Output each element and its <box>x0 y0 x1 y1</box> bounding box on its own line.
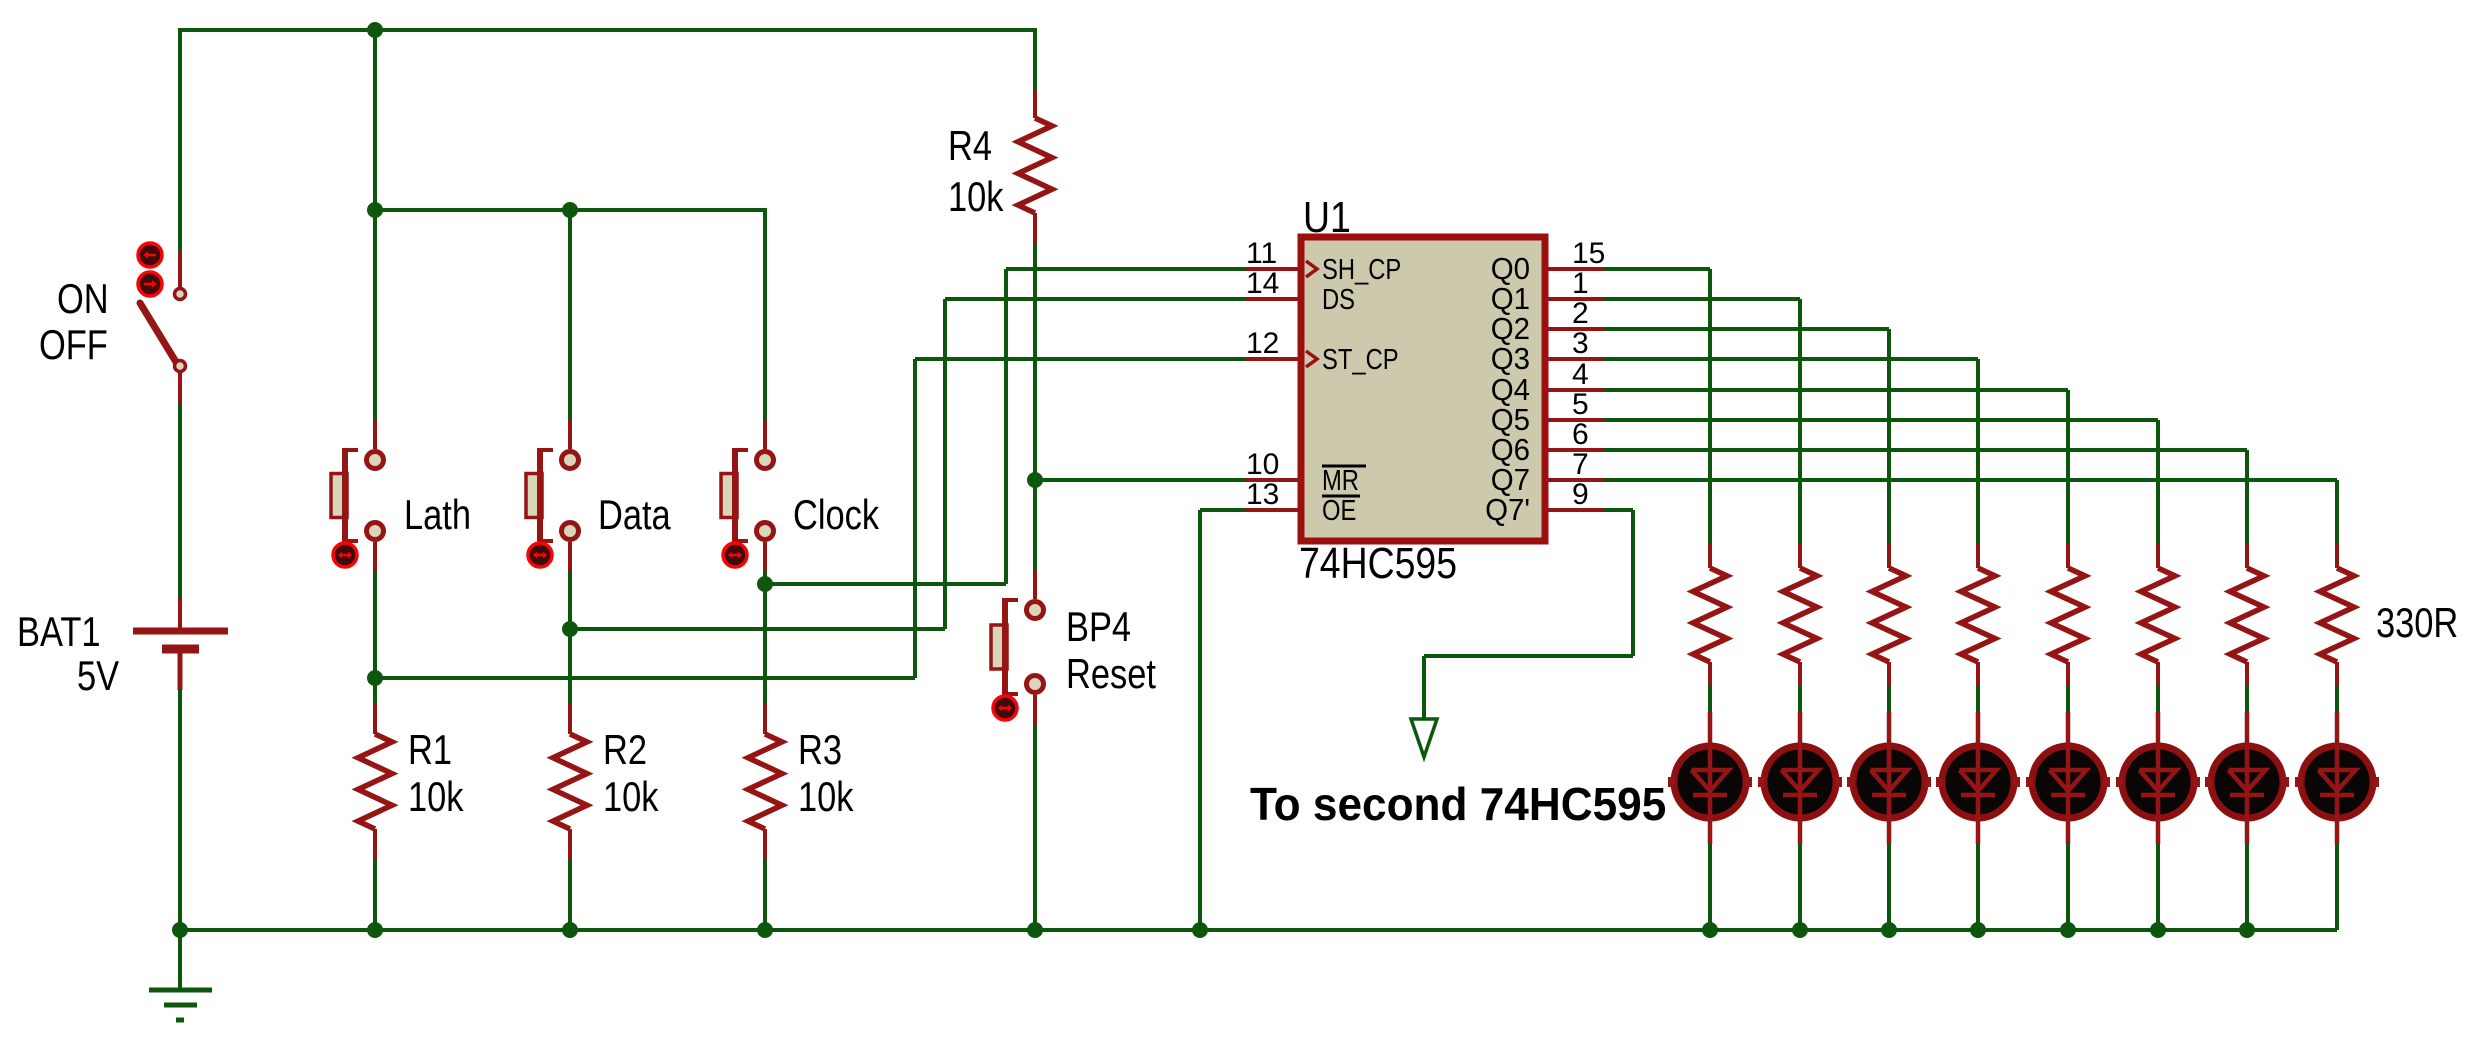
svg-text:OE: OE <box>1322 494 1356 527</box>
svg-text:R3: R3 <box>798 727 842 774</box>
wire BP4 to ground rail <box>1033 725 1037 930</box>
svg-text:Q5: Q5 <box>1491 403 1530 437</box>
label R1 value 10k <box>408 774 464 821</box>
svg-text:10k: 10k <box>408 774 464 821</box>
svg-text:R4: R4 <box>948 123 992 170</box>
pin 4 Q4 <box>1491 358 1603 407</box>
svg-text:Q3: Q3 <box>1491 342 1530 376</box>
label R1 <box>408 727 452 774</box>
wire Q6 to LED column 7 <box>1603 450 2247 544</box>
wire button rail to Data button <box>568 210 572 420</box>
LED D1 <box>1668 712 1752 844</box>
wire switch to battery <box>178 403 182 597</box>
junction button rail at Data column <box>562 202 578 218</box>
svg-text:Q4: Q4 <box>1491 373 1530 407</box>
ground <box>149 990 212 1020</box>
svg-text:11: 11 <box>1246 237 1277 270</box>
label To second 74HC595 <box>1250 778 1666 830</box>
LED D5 <box>2026 712 2110 844</box>
svg-text:5V: 5V <box>77 653 119 700</box>
svg-text:Q1: Q1 <box>1491 282 1530 316</box>
wire Lath button to node <box>373 571 377 678</box>
button Lath actuator <box>333 543 357 567</box>
push button Clock <box>721 420 774 571</box>
wire to pin ST_CP <box>915 357 1245 361</box>
switch actuator marks <box>138 243 162 296</box>
label 5V <box>77 653 119 700</box>
wire LED D8 to ground rail <box>2335 844 2339 930</box>
label 330R <box>2376 600 2458 647</box>
wire Q2 to LED column 3 <box>1603 329 1889 544</box>
junction ground rail at R2 <box>562 922 578 938</box>
resistor 330R #4 <box>1961 544 1995 686</box>
svg-text:Data: Data <box>598 492 671 539</box>
wire R3 to ground rail <box>763 860 767 930</box>
svg-text:DS: DS <box>1322 283 1355 316</box>
label Clock <box>793 492 880 539</box>
svg-text:5: 5 <box>1572 388 1589 421</box>
wire R1 to ground rail <box>373 860 377 930</box>
wire LED D7 to ground rail <box>2245 844 2249 930</box>
wire resistor to LED D8 <box>2335 686 2339 712</box>
svg-text:10k: 10k <box>798 774 854 821</box>
junction node Data <box>562 621 578 637</box>
svg-text:ON: ON <box>57 276 109 323</box>
label ON <box>57 276 109 323</box>
svg-text:3: 3 <box>1572 327 1589 360</box>
wire VCC top rail <box>180 28 1035 32</box>
label BAT1 <box>17 609 101 656</box>
wire Lath node to ST_CP riser <box>375 359 915 678</box>
push button Lath <box>331 420 384 571</box>
wire Q2 column to resistor <box>1887 544 1891 546</box>
wire Q0 column to resistor <box>1708 544 1712 546</box>
pin 9 Q7' <box>1485 478 1603 527</box>
svg-text:2: 2 <box>1572 297 1589 330</box>
junction ground rail at LED 4 <box>1970 922 1986 938</box>
svg-text:R2: R2 <box>603 727 647 774</box>
wire button rail to Clock button <box>763 208 767 420</box>
junction ground rail at LED 3 <box>1881 922 1897 938</box>
wire LED D5 to ground rail <box>2066 844 2070 930</box>
push button BP4 Reset <box>991 569 1044 725</box>
label R3 <box>798 727 842 774</box>
wire LED D3 to ground rail <box>1887 844 1891 930</box>
wire to pin SH_CP <box>1006 267 1245 271</box>
wire to pin MR <box>1035 478 1245 482</box>
svg-text:Q7: Q7 <box>1491 463 1530 497</box>
label Lath <box>404 492 471 539</box>
wire ground stem <box>178 930 182 990</box>
svg-text:10: 10 <box>1246 448 1279 481</box>
wire left column to switch <box>178 28 182 252</box>
svg-text:1: 1 <box>1572 267 1589 300</box>
svg-text:7: 7 <box>1572 448 1589 481</box>
op-amp U1 74HC595 body <box>1301 237 1545 541</box>
LED D4 <box>1936 712 2020 844</box>
svg-text:Q0: Q0 <box>1491 252 1530 286</box>
wire Data button to node <box>568 571 572 629</box>
wire button rail to Lath button <box>373 210 377 420</box>
switch ON/OFF <box>140 252 186 403</box>
resistor 330R #8 <box>2320 544 2354 686</box>
pin 7 Q7 <box>1491 448 1603 497</box>
label BP4 <box>1066 604 1131 651</box>
svg-text:4: 4 <box>1572 358 1589 391</box>
pin 3 Q3 <box>1491 327 1603 376</box>
junction ground rail at LED 7 <box>2239 922 2255 938</box>
wire Q3 column to resistor <box>1976 544 1980 546</box>
wire Q5 to LED column 6 <box>1603 420 2158 544</box>
resistor R4 <box>1018 89 1052 243</box>
wire Data node to DS riser <box>570 299 945 629</box>
wire battery to ground rail <box>178 690 182 930</box>
svg-text:12: 12 <box>1246 327 1279 360</box>
LED D7 <box>2205 712 2289 844</box>
svg-text:BP4: BP4 <box>1066 604 1131 651</box>
button BP4 actuator <box>993 696 1017 720</box>
LED D8 <box>2295 712 2379 844</box>
pin 2 Q2 <box>1491 297 1603 346</box>
svg-text:10k: 10k <box>603 774 659 821</box>
wire button supply rail <box>375 208 765 212</box>
resistor 330R #1 <box>1693 544 1727 686</box>
pin 11 SH_CP <box>1245 237 1401 286</box>
label R2 <box>603 727 647 774</box>
wire Q0 to LED column 1 <box>1603 269 1710 544</box>
junction ground rail at R3 <box>757 922 773 938</box>
pin 1 Q1 <box>1491 267 1603 316</box>
svg-text:Q2: Q2 <box>1491 312 1530 346</box>
junction ground rail at LED 5 <box>2060 922 2076 938</box>
wire Q5 column to resistor <box>2156 544 2160 546</box>
wire resistor to LED D1 <box>1708 686 1712 712</box>
svg-text:R1: R1 <box>408 727 452 774</box>
wire drop to button rail <box>373 28 377 210</box>
resistor 330R #6 <box>2141 544 2175 686</box>
wire LED D6 to ground rail <box>2156 844 2160 930</box>
button Data actuator <box>528 543 552 567</box>
pin 15 Q0 <box>1491 237 1606 286</box>
wire resistor to LED D4 <box>1976 686 1980 712</box>
resistor 330R #5 <box>2051 544 2085 686</box>
junction ground rail at OE wire <box>1192 922 1208 938</box>
wire Q6 column to resistor <box>2245 544 2249 546</box>
svg-text:6: 6 <box>1572 418 1589 451</box>
node To second 74HC595 arrow <box>1411 719 1437 757</box>
junction node MR <box>1027 472 1043 488</box>
wire Q7 column to resistor <box>2335 544 2339 546</box>
svg-text:OFF: OFF <box>39 322 108 369</box>
battery BAT1 <box>133 597 228 690</box>
label Reset <box>1066 651 1156 698</box>
wire R2 to ground rail <box>568 860 572 930</box>
svg-text:U1: U1 <box>1303 192 1351 242</box>
wire Clock node to resistor R3 <box>763 584 767 703</box>
pin 13 OE <box>1245 478 1360 527</box>
resistor R2 <box>553 703 587 860</box>
junction node Lath <box>367 670 383 686</box>
label R4 value 10k <box>948 174 1004 221</box>
svg-text:13: 13 <box>1246 478 1279 511</box>
LED D3 <box>1847 712 1931 844</box>
svg-text:To second 74HC595: To second 74HC595 <box>1250 778 1666 830</box>
wire Clock button to node <box>763 571 767 584</box>
wire resistor to LED D3 <box>1887 686 1891 712</box>
wire Q4 column to resistor <box>2066 544 2070 546</box>
wire MR node to BP4 <box>1033 480 1037 569</box>
svg-text:10k: 10k <box>948 174 1004 221</box>
pin 6 Q6 <box>1491 418 1603 467</box>
wire pin OE to ground rail <box>1200 510 1245 930</box>
wire resistor to LED D5 <box>2066 686 2070 712</box>
svg-text:Q6: Q6 <box>1491 433 1530 467</box>
wire Q7 to LED column 8 <box>1603 480 2337 544</box>
wire LED D1 to ground rail <box>1708 844 1712 930</box>
resistor R1 <box>358 703 392 860</box>
svg-text:MR: MR <box>1322 464 1359 497</box>
pin 5 Q5 <box>1491 388 1603 437</box>
wire resistor to LED D2 <box>1798 686 1802 712</box>
svg-text:Reset: Reset <box>1066 651 1156 698</box>
junction top rail / switch-buttons drop <box>367 22 383 38</box>
wire bottom ground rail <box>180 928 2337 932</box>
label 74HC595 <box>1299 538 1457 588</box>
resistor 330R #7 <box>2230 544 2264 686</box>
label R3 value 10k <box>798 774 854 821</box>
pin 12 ST_CP <box>1245 327 1399 376</box>
svg-text:ST_CP: ST_CP <box>1322 343 1399 376</box>
wire LED D2 to ground rail <box>1798 844 1802 930</box>
wire Q7' to second stage arrow <box>1424 510 1633 719</box>
wire top rail to R4 <box>1033 28 1037 89</box>
push button Data <box>526 420 579 571</box>
wire Q1 to LED column 2 <box>1603 299 1800 544</box>
wire to pin DS <box>945 297 1245 301</box>
button Clock actuator <box>723 543 747 567</box>
junction node Clock <box>757 576 773 592</box>
pin 14 DS <box>1245 267 1355 316</box>
wire Data node to resistor R2 <box>568 629 572 703</box>
resistor R3 <box>748 703 782 860</box>
svg-text:SH_CP: SH_CP <box>1322 253 1401 286</box>
label Data <box>598 492 671 539</box>
wire Q4 to LED column 5 <box>1603 390 2068 544</box>
wire LED D4 to ground rail <box>1976 844 1980 930</box>
junction ground rail at LED 6 <box>2150 922 2166 938</box>
wire Clock node to SH_CP riser <box>765 269 1006 584</box>
svg-text:BAT1: BAT1 <box>17 609 101 656</box>
wire Q3 to LED column 4 <box>1603 359 1978 544</box>
wire resistor to LED D6 <box>2156 686 2160 712</box>
wire Q1 column to resistor <box>1798 544 1802 546</box>
svg-text:74HC595: 74HC595 <box>1299 538 1457 588</box>
LED D6 <box>2116 712 2200 844</box>
junction ground rail at LED 1 <box>1702 922 1718 938</box>
junction ground rail at R1 <box>367 922 383 938</box>
svg-text:15: 15 <box>1572 237 1605 270</box>
svg-text:Clock: Clock <box>793 492 880 539</box>
svg-text:9: 9 <box>1572 478 1589 511</box>
label U1 <box>1303 192 1351 242</box>
junction ground rail at BP4 <box>1027 922 1043 938</box>
LED D2 <box>1758 712 1842 844</box>
junction button rail at Lath column <box>367 202 383 218</box>
svg-text:Q7': Q7' <box>1485 493 1530 527</box>
svg-text:330R: 330R <box>2376 600 2458 647</box>
resistor 330R #3 <box>1872 544 1906 686</box>
label R4 <box>948 123 992 170</box>
label R2 value 10k <box>603 774 659 821</box>
junction ground rail at LED 2 <box>1792 922 1808 938</box>
label OFF <box>39 322 108 369</box>
junction ground rail at battery <box>172 922 188 938</box>
wire Lath node to resistor R1 <box>373 678 377 703</box>
wire resistor to LED D7 <box>2245 686 2249 712</box>
svg-text:14: 14 <box>1246 267 1279 300</box>
wire R4 to MR node <box>1033 243 1037 480</box>
resistor 330R #2 <box>1783 544 1817 686</box>
svg-text:Lath: Lath <box>404 492 471 539</box>
pin 10 MR <box>1245 448 1366 497</box>
